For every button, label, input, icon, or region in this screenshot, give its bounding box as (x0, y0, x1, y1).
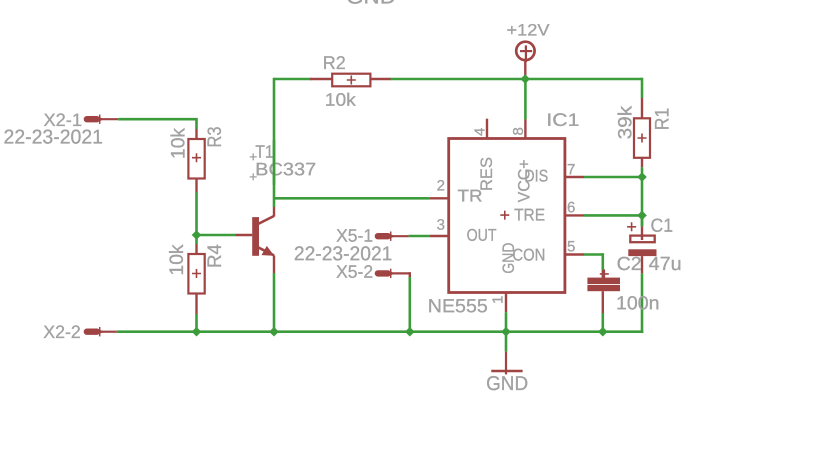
transistor T1 origin cross 2 (gray) (250, 173, 257, 180)
resistor R1 bottom stub (641, 158, 643, 167)
transistor T1 origin cross 1 (gray) (250, 153, 257, 160)
svg-text:IC1: IC1 (546, 110, 579, 130)
svg-text:R3: R3 (205, 127, 226, 148)
wire right vertical between junctions (641, 177, 644, 227)
wire pin7 green to junction (584, 176, 642, 179)
capacitor C1 top green (641, 215, 644, 226)
wire X5-2 corner down red (409, 272, 411, 277)
connector pin X2-1 head (84, 115, 118, 124)
junction pin7/R1 (637, 172, 647, 182)
transistor T1 emitter stub down (273, 255, 275, 273)
junction pin6/C1 (637, 211, 647, 221)
svg-text:10k: 10k (325, 90, 357, 110)
svg-text:TRE: TRE (514, 206, 545, 225)
junction rail/pin1-GND (501, 327, 511, 337)
svg-text:C1: C1 (650, 216, 673, 237)
svg-text:10k: 10k (167, 244, 188, 275)
wire top rail left green segment (274, 78, 311, 81)
capacitor C2 top lead (602, 270, 604, 278)
junction rail/emitter (269, 327, 279, 337)
resistor R1 origin cross (638, 134, 647, 143)
wire base green (197, 234, 236, 237)
svg-text:39k: 39k (615, 105, 636, 139)
svg-text:GND: GND (486, 373, 528, 395)
svg-text:+12V: +12V (506, 22, 549, 40)
capacitor C2 origin cross (600, 269, 609, 278)
resistor R2 left stub (310, 78, 332, 80)
wire emitter to rail green (273, 273, 276, 332)
svg-text:1: 1 (490, 296, 507, 304)
junction rail/R4 (192, 327, 202, 337)
svg-text:7: 7 (567, 161, 575, 178)
capacitor C1 minus plate (filled) (628, 249, 656, 256)
transistor T1 base bar (252, 217, 259, 256)
junction rail/X5-2 (405, 327, 415, 337)
pin 6 stub (565, 214, 584, 216)
pin 2 stub (430, 197, 449, 199)
wire C2 bottom green (601, 313, 604, 332)
svg-text:47u: 47u (649, 254, 682, 275)
pin 8 stub (524, 120, 526, 139)
wire corner down to R3 (195, 118, 198, 129)
resistor R1 body (634, 118, 650, 158)
resistor R3 origin cross (192, 153, 201, 162)
wire R4 to rail green (195, 314, 198, 332)
wire X5-2 down green (408, 277, 411, 332)
svg-text:X5-2: X5-2 (336, 262, 373, 282)
connector pin X5-1 head (375, 232, 409, 241)
resistor R3 top stub (195, 129, 197, 139)
capacitor C1 top lead (641, 227, 643, 240)
IC1 origin cross (red) (500, 211, 509, 220)
junction rail/C2 (598, 327, 608, 337)
svg-text:C2: C2 (617, 254, 642, 275)
svg-text:3: 3 (437, 217, 445, 234)
transistor T1 collector stub up (273, 207, 275, 217)
wire overlay at T1 labels (273, 140, 276, 185)
wire R1 bottom green (641, 167, 644, 177)
svg-text:100n: 100n (616, 293, 660, 314)
wire C1 bottom green to rail (641, 273, 644, 333)
svg-text:TR: TR (457, 187, 482, 206)
connector pin X5-2 head (375, 269, 410, 278)
junction R3/R4/base (192, 230, 202, 240)
resistor R1 top stub (641, 98, 643, 118)
svg-text:8: 8 (510, 127, 527, 135)
wire X5-1 to pin3 green (409, 235, 430, 238)
svg-text:OUT: OUT (467, 226, 497, 245)
transistor T1 emitter diagonal (258, 247, 274, 255)
svg-text:R1: R1 (652, 108, 673, 131)
resistor R1 top green (641, 78, 644, 98)
junction at +12V on top rail (520, 74, 530, 84)
svg-text:22-23-2021: 22-23-2021 (3, 127, 103, 149)
connector pin X2-2 head (84, 327, 117, 336)
resistor R4 top stub (195, 244, 197, 254)
resistor R2 body (332, 74, 370, 87)
transistor T1 emitter arrow (262, 246, 275, 256)
svg-text:2: 2 (437, 178, 445, 195)
wire pin8 vertical green (524, 79, 527, 120)
capacitor C2 bottom lead (602, 291, 604, 313)
pin 3 stub (430, 235, 449, 237)
svg-text:NE555: NE555 (428, 296, 488, 317)
wire bottom rail green (117, 330, 644, 333)
pin 5 stub (565, 253, 584, 255)
transistor T1 collector diagonal (258, 216, 274, 224)
resistor R4 bottom stub (195, 294, 197, 315)
pin 1 stub (505, 293, 507, 313)
resistor R4 body (188, 254, 204, 294)
resistor R2 origin cross (347, 76, 356, 85)
wire pin2 row green (274, 197, 430, 200)
capacitor C1 bottom lead (641, 256, 643, 273)
op-amp/IC IC1 NE555 body (449, 139, 565, 293)
pin 4 stub (486, 119, 488, 139)
wire left vertical from rail to pin2 row (273, 78, 276, 207)
svg-text:4: 4 (472, 128, 489, 136)
wire pin1 to rail green (505, 312, 508, 332)
svg-text:R2: R2 (323, 52, 346, 73)
resistor R2 right stub (370, 78, 390, 80)
svg-text:GND: GND (499, 243, 518, 274)
pin 7 stub (565, 176, 584, 178)
svg-text:X2-2: X2-2 (43, 322, 81, 342)
capacitor C2 plate 1 (587, 278, 620, 285)
capacitor C1 plus plate (outline) (630, 236, 654, 243)
capacitor C2 plate 2 (587, 285, 620, 291)
svg-text:5: 5 (567, 238, 575, 255)
wire pin6 green to junction (584, 214, 642, 217)
svg-text:BC337: BC337 (255, 159, 316, 179)
ground symbol lead (505, 352, 507, 375)
svg-text:GND: GND (346, 0, 396, 9)
resistor R4 origin cross (192, 269, 201, 278)
wire C2 top green (601, 253, 604, 270)
wire X2-1 to corner (118, 118, 196, 121)
transistor T1 base stub (235, 234, 252, 236)
resistor R3 bottom stub (195, 179, 197, 193)
ground symbol bar (491, 370, 522, 373)
svg-text:R4: R4 (205, 244, 226, 268)
resistor R3 body (188, 139, 204, 179)
wire rail down to GND green (505, 332, 508, 352)
svg-text:DIS: DIS (524, 167, 548, 186)
svg-text:6: 6 (567, 199, 575, 216)
wire top rail mid green segment (390, 78, 642, 81)
supply +12V symbol (516, 42, 534, 79)
wire pin5 green (584, 253, 603, 256)
wire junction down to R4 (195, 235, 198, 244)
capacitor C1 origin cross (red plus) (627, 222, 636, 231)
wire R3 to junction green (195, 192, 198, 235)
svg-text:10k: 10k (169, 128, 190, 159)
